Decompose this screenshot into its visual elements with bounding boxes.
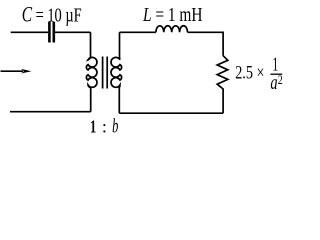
svg-text:b: b — [112, 116, 118, 138]
svg-text::: : — [102, 117, 107, 137]
svg-text:2.5 ×: 2.5 × — [235, 63, 264, 84]
svg-text:1: 1 — [90, 117, 96, 137]
svg-text:L = 1 mH: L = 1 mH — [142, 4, 202, 26]
svg-text:C = 10 µF: C = 10 µF — [22, 1, 82, 26]
svg-text:a: a — [270, 72, 277, 94]
svg-text:2: 2 — [278, 73, 283, 87]
